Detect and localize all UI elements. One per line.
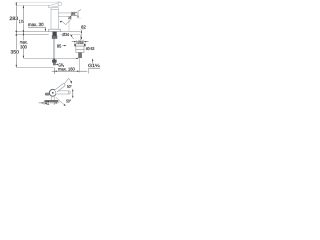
svg-text:G1¼: G1¼ [88,63,100,68]
svg-text:max. 160: max. 160 [58,67,75,72]
deck left section [15,31,49,33]
label 42 [45,102,50,105]
washer [75,44,86,46]
down swivel arrow line [56,97,65,105]
aerator ext line [77,17,82,19]
flow arrow V [61,19,72,25]
82 ext top [80,29,85,31]
ground line [45,100,59,102]
aerator [68,16,71,18]
svg-text:300: 300 [20,45,27,50]
svg-text:85: 85 [57,44,62,49]
label 283 [9,16,19,20]
shank below deck [53,32,57,36]
max30 leader underline [28,26,46,28]
svg-text:42: 42 [45,101,50,106]
Ø34 deck leader arrow [72,36,74,39]
ext line top 283 [14,1,61,3]
G3/8 leader arrow [56,64,58,65]
water stream lines [68,19,70,32]
42 dim line [39,102,44,104]
label 300 [20,45,27,49]
body neck [51,7,58,9]
detail stud top [80,35,82,40]
lever knob [58,2,62,6]
detail stud [78,52,80,55]
max30 leader vertical [44,27,46,29]
lever handle [48,3,58,7]
85 arrow [62,45,65,47]
ext line max300 bottom [16,67,54,69]
deck right section [60,31,80,33]
max160 right arrow [77,71,80,72]
max160 left arrow [54,71,57,72]
svg-text:82: 82 [81,24,86,29]
hose connector G3/8 [52,60,56,63]
svg-text:40-53: 40-53 [86,46,95,51]
shank nut [52,36,57,39]
svg-text:50°: 50° [66,99,71,104]
arrow 350 deck [16,33,17,36]
lever stub left [45,93,49,95]
36deg leader arrow [69,16,71,18]
svg-text:36°: 36° [71,11,77,16]
hose stud [53,39,55,61]
nut [76,46,84,50]
max30 leader arrow [45,29,46,32]
arrow max300 bottom [23,56,24,59]
arrow 350 bottom [16,65,17,68]
max160 dim line [52,70,87,72]
body below circle [50,96,52,100]
svg-text:175: 175 [19,19,25,24]
max160 label [58,67,75,71]
lower ring [76,50,84,53]
svg-text:350: 350 [11,50,20,55]
bar right [56,91,70,94]
arrow on stud [53,59,55,62]
arrow 283 deck [16,31,17,34]
36deg underline leader [71,15,78,17]
ext line 175 level [16,4,51,6]
arrow 175 top [23,5,24,8]
max160 right end tick [88,69,90,74]
swivel double arrow [72,90,74,97]
spout [58,13,71,17]
arrow at right end of 350 ext [76,58,79,59]
max160 left ext tick [53,68,55,74]
36deg curved arrow [77,11,79,15]
G1-1/4 underline [88,67,100,69]
42 dim ticks [43,101,45,105]
dim line 283/350 [15,2,17,67]
label 350 [10,50,19,54]
dim line 175/max300 [22,5,24,58]
base flange [49,29,61,31]
label Ø34 [62,32,69,36]
label 175 [19,20,25,24]
bottom detail: swivel circle [49,89,56,96]
ext line 350 bottom [23,57,77,59]
diagonal bar up-right [55,84,65,93]
hatching [46,101,60,103]
faucet body [51,9,58,29]
svg-text:50°: 50° [67,84,72,89]
stud lower line [79,58,81,72]
svg-text:283: 283 [9,16,18,22]
arrow 175 deck [23,30,24,33]
svg-text:max. 30: max. 30 [28,22,44,27]
G1-1/4 leader arrow [92,61,94,64]
82 dim line [80,30,82,39]
lever ghost arc [55,1,60,2]
svg-text:Ø34: Ø34 [62,32,69,37]
bent rotation arrow [64,78,71,84]
label max. [20,40,29,44]
arrow 283 top [16,2,17,5]
mounting detail: Ø63 dim [72,41,77,43]
